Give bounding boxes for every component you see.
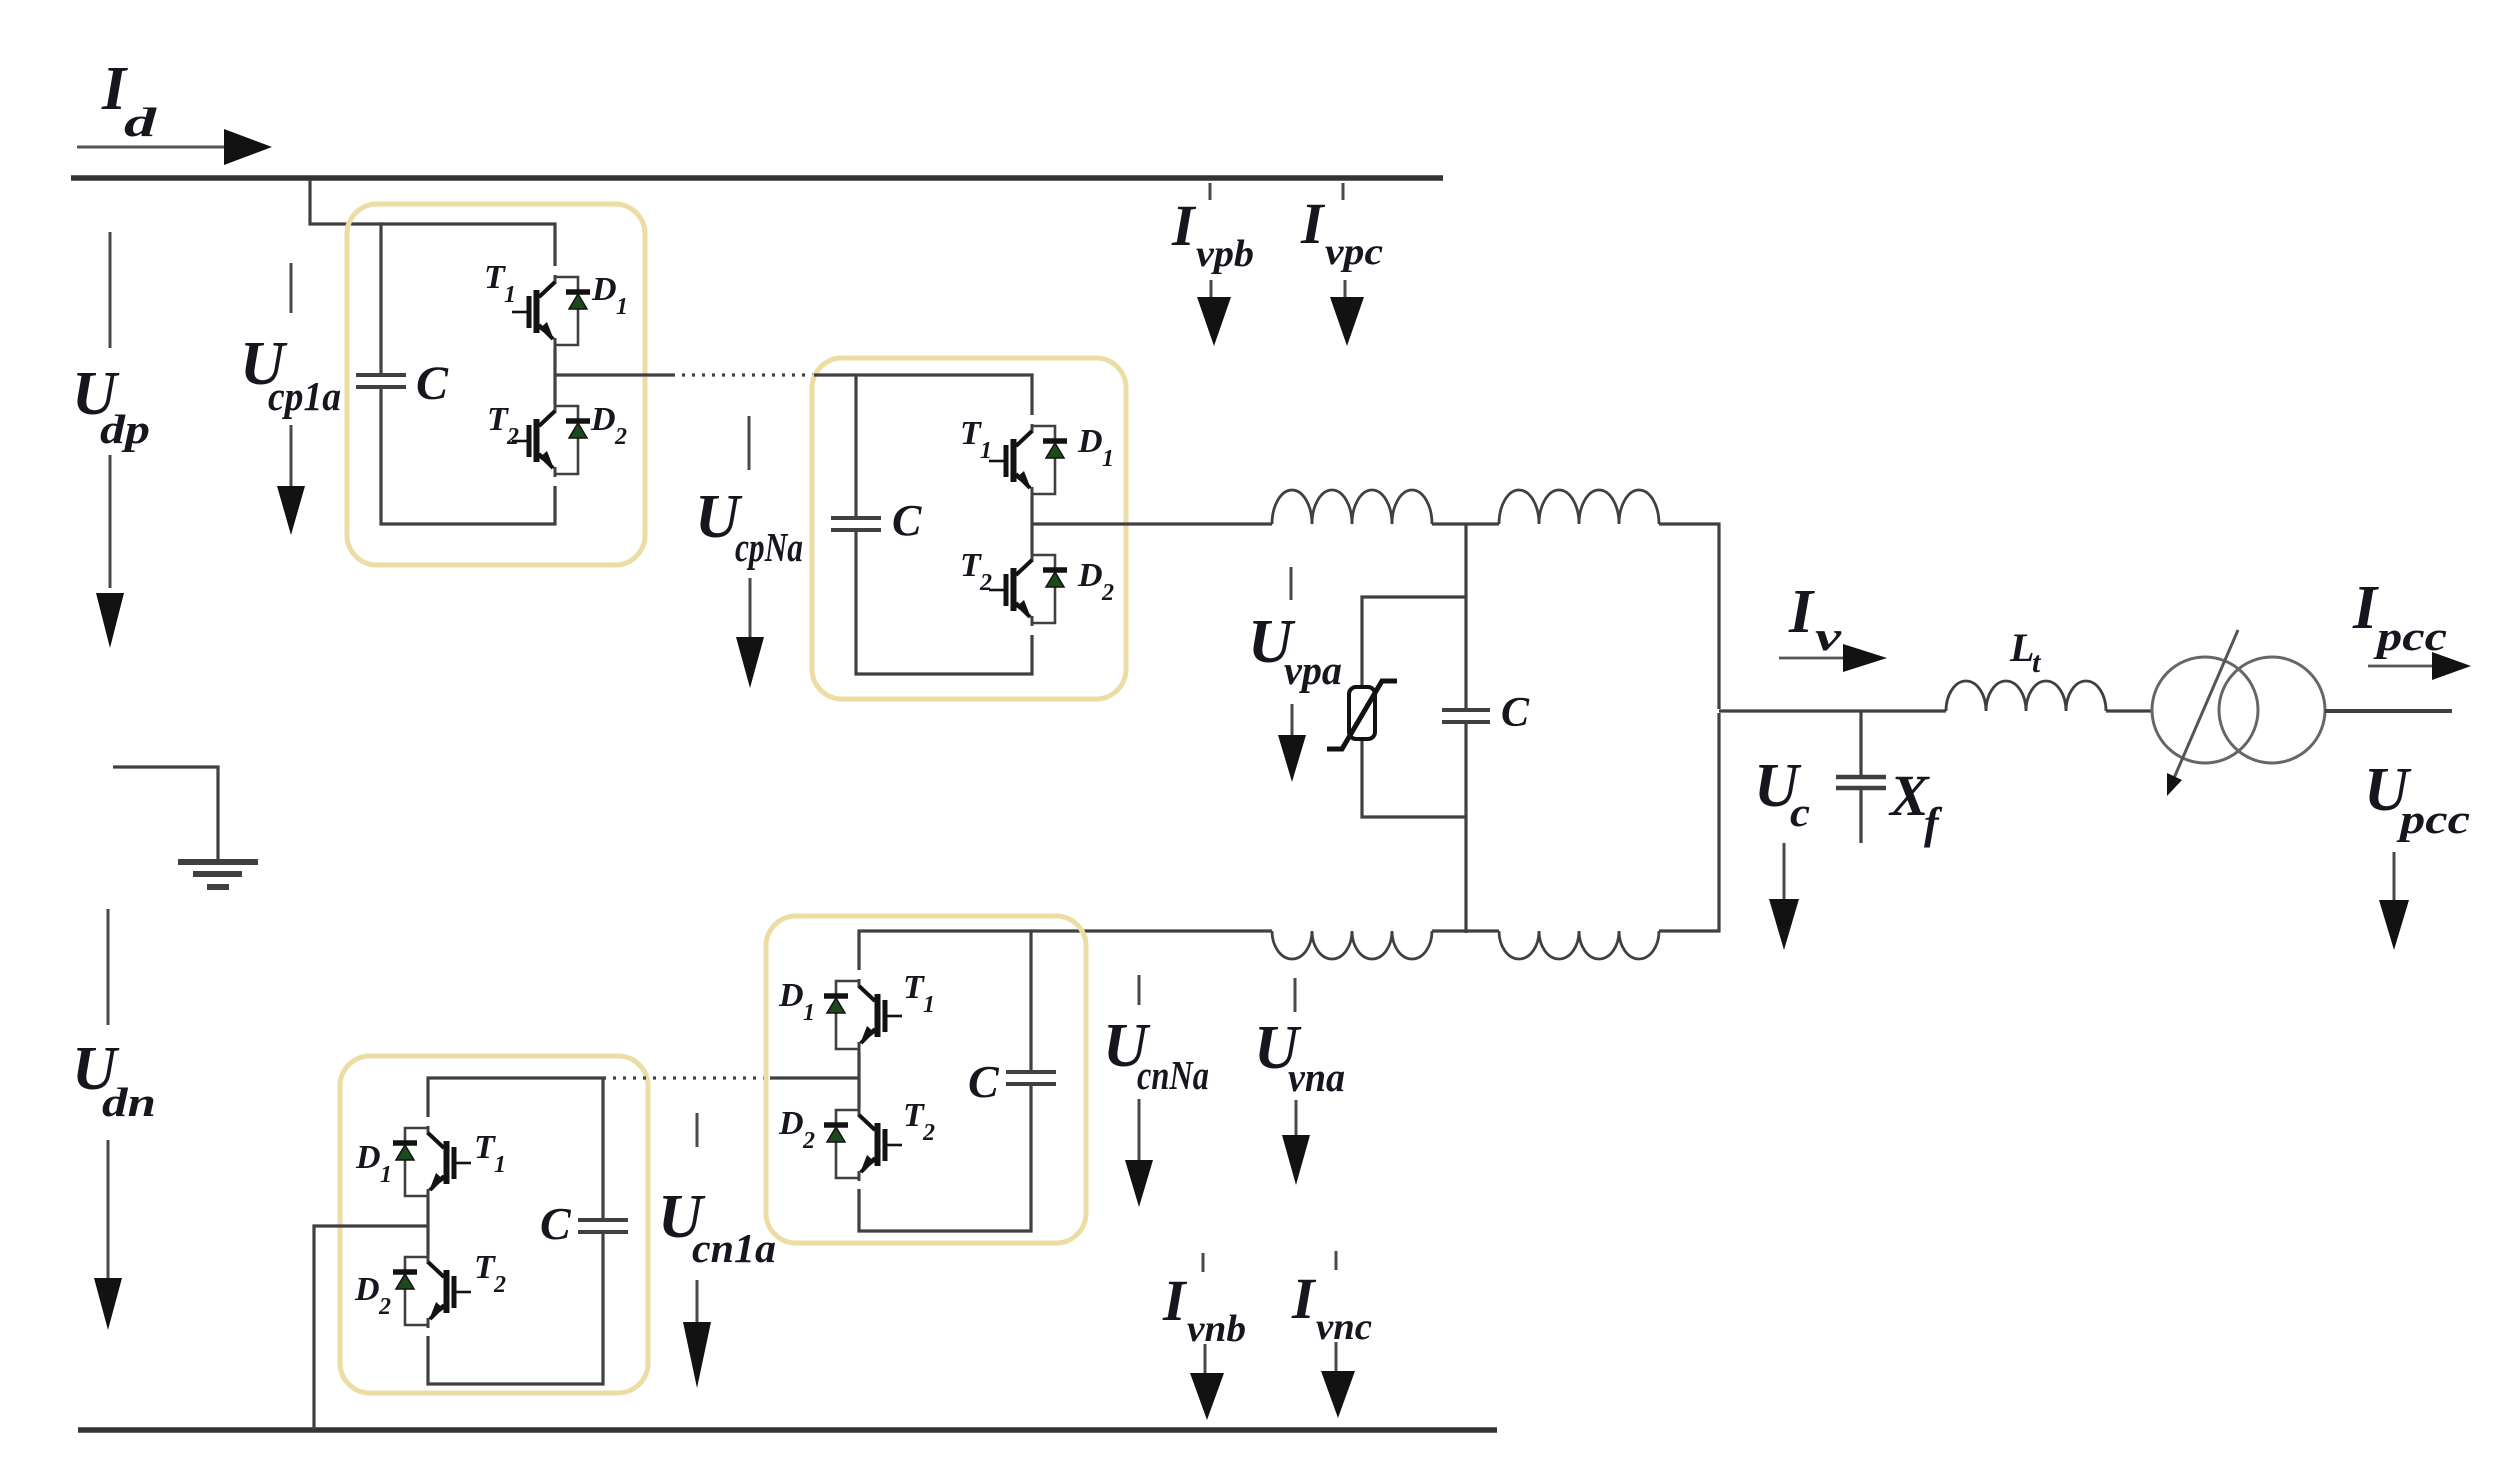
svg-text:C: C [892, 496, 922, 545]
label D1 (SM-nNa) [778, 977, 815, 1026]
arrow Iv (current direction) [1779, 644, 1887, 672]
label D1 (SM-pNa) [1077, 423, 1114, 472]
svg-text:2: 2 [922, 1120, 935, 1146]
label Ivnb [1162, 1268, 1246, 1350]
inductor lower arm reactor 2 [1499, 931, 1659, 959]
transistor T2 with diode D2 (SM-p1a) [512, 404, 590, 477]
label Ucn1a [658, 1183, 776, 1271]
arrow Udn (dashed measurement arrow) [94, 909, 122, 1330]
svg-text:1: 1 [1102, 446, 1114, 472]
label Udn (lower DC voltage) [72, 1035, 156, 1125]
svg-text:1: 1 [980, 438, 992, 464]
label Iv (valve current) [1788, 578, 1842, 659]
svg-text:1: 1 [923, 992, 935, 1018]
label Id (DC-link current) [101, 55, 157, 145]
label C (filter branch) [1501, 690, 1530, 736]
svg-text:D: D [355, 1139, 381, 1176]
transistor T2 with diode D2 (SM-pNa) [989, 553, 1067, 626]
label T2 (SM-n1a) [474, 1249, 506, 1298]
label T1 (SM-pNa) [960, 415, 992, 464]
transformer tap-changer diagonal arrow [2167, 630, 2238, 796]
svg-text:2: 2 [802, 1128, 815, 1154]
transistor T1 with diode D1 (SM-n1a) [393, 1126, 471, 1199]
arrow Ivpc (arm current arrow) [1330, 183, 1364, 346]
svg-text:D: D [1077, 423, 1103, 460]
capacitor C (SM-p1a) [356, 375, 406, 387]
svg-text:pcc: pcc [2373, 613, 2447, 659]
label T2 (SM-nNa) [903, 1097, 935, 1146]
label Uc [1754, 752, 1810, 835]
arrow Ivnb (arm current arrow) [1190, 1253, 1224, 1420]
svg-text:I: I [1300, 191, 1326, 256]
svg-text:cn1a: cn1a [692, 1225, 776, 1271]
svg-text:vpb: vpb [1196, 233, 1254, 275]
arrow Ucp1a (dashed measurement arrow) [277, 263, 305, 535]
submodule SM-p1a highlight box [347, 204, 645, 565]
varistor RV1 (surge arrester) [1327, 681, 1397, 749]
label C (SM-n1a) [540, 1198, 572, 1249]
arrow Udp (dashed measurement arrow) [96, 232, 124, 648]
label D2 (SM-nNa) [778, 1105, 815, 1154]
label Udp (upper DC voltage) [72, 360, 150, 452]
inductor upper arm reactor 1 [1272, 490, 1432, 524]
wire between lower reactors [1432, 929, 1499, 932]
wire top DC bus (positive pole) [71, 175, 1443, 181]
wire SM-n1a cell frame [428, 1078, 603, 1384]
wire Lt to transformer [2106, 709, 2153, 712]
svg-text:T: T [474, 1249, 496, 1286]
label Upcc [2364, 756, 2470, 842]
svg-text:v: v [1815, 613, 1842, 659]
arrow Ivnc (arm current arrow) [1321, 1251, 1355, 1418]
submodule SM-pNa highlight box [812, 358, 1126, 699]
svg-text:dp: dp [100, 406, 150, 452]
svg-text:2: 2 [1101, 580, 1114, 606]
svg-text:vnb: vnb [1187, 1308, 1246, 1350]
wire SM-nNa top to lower arm reactor [1031, 929, 1272, 932]
label D2 (SM-p1a) [590, 401, 627, 450]
capacitor C (filter branch) [1442, 710, 1490, 722]
label T1 (SM-p1a) [484, 259, 516, 308]
wire transformer output [2325, 709, 2452, 713]
transformer T (two winding circles) [2152, 657, 2325, 763]
transistor T1 with diode D1 (SM-p1a) [512, 275, 590, 348]
label T2 (SM-pNa) [960, 547, 992, 596]
svg-text:C: C [540, 1198, 572, 1249]
label Ipcc [2352, 574, 2447, 659]
svg-text:pcc: pcc [2396, 796, 2470, 842]
arrow Uvna (dashed measurement arrow) [1282, 978, 1310, 1185]
label D2 (SM-n1a) [354, 1271, 391, 1320]
arrow Ivpb (arm current arrow) [1197, 183, 1231, 346]
svg-text:dn: dn [102, 1079, 156, 1125]
svg-text:T: T [903, 969, 925, 1006]
svg-text:I: I [1171, 193, 1197, 258]
svg-text:c: c [1790, 789, 1810, 835]
svg-text:2: 2 [979, 570, 992, 596]
label D1 (SM-p1a) [591, 271, 628, 320]
wire phase output node [1719, 709, 1946, 712]
inductor Lt (transformer inductance) [1946, 681, 2106, 711]
wire Xf shunt stub [1859, 711, 1862, 843]
svg-text:D: D [590, 401, 616, 438]
svg-text:I: I [2352, 574, 2379, 642]
svg-text:T: T [487, 401, 509, 438]
svg-text:L: L [2009, 625, 2034, 670]
wire SM-nNa cell frame [770, 931, 1031, 1231]
svg-text:1: 1 [380, 1162, 392, 1188]
svg-text:T: T [484, 259, 506, 296]
capacitor C (SM-pNa) [831, 518, 881, 530]
ground wire stub [113, 767, 218, 861]
label D2 (SM-pNa) [1077, 557, 1114, 606]
label C (SM-p1a) [416, 357, 449, 410]
svg-text:f: f [1924, 799, 1943, 848]
svg-text:1: 1 [803, 1000, 815, 1026]
arrow Ipcc (current direction) [2368, 652, 2471, 680]
svg-text:I: I [1162, 1268, 1188, 1333]
capacitor C (SM-nNa) [1006, 1072, 1056, 1084]
arrow UcpNa (dashed measurement arrow) [736, 416, 764, 688]
submodule SM-nNa highlight box [766, 916, 1086, 1243]
submodule SM-n1a highlight box [340, 1056, 648, 1393]
arrow Upcc (measurement arrow) [2379, 852, 2409, 950]
svg-text:2: 2 [614, 424, 627, 450]
svg-text:vnc: vnc [1316, 1306, 1372, 1348]
svg-text:I: I [1291, 1266, 1317, 1331]
wire upper arm to phase node [1659, 524, 1719, 709]
svg-text:C: C [1501, 690, 1530, 736]
svg-text:d: d [124, 99, 157, 145]
svg-text:D: D [591, 271, 617, 308]
label Xf [1888, 763, 1943, 848]
label Ivnc [1291, 1266, 1372, 1348]
label Ucp1a [240, 330, 341, 419]
svg-text:I: I [1788, 578, 1815, 646]
label T1 (SM-nNa) [903, 969, 935, 1018]
wire center branch vertical [1464, 524, 1467, 933]
capacitor C (SM-n1a) [578, 1220, 628, 1232]
arrow Ucn1a (dashed measurement arrow) [683, 1113, 711, 1388]
svg-text:T: T [474, 1129, 496, 1166]
svg-text:cpNa: cpNa [735, 524, 803, 570]
wire between upper reactors [1432, 522, 1499, 525]
label UcnNa [1103, 1012, 1209, 1098]
svg-text:1: 1 [616, 294, 628, 320]
svg-text:2: 2 [493, 1272, 506, 1298]
wire step from top bus to SM1 [310, 180, 383, 224]
transistor T1 with diode D1 (SM-nNa) [824, 979, 902, 1052]
svg-text:cp1a: cp1a [268, 373, 341, 419]
wire lower arm to phase node [1659, 713, 1719, 931]
svg-text:D: D [778, 977, 804, 1014]
label UcpNa [695, 483, 803, 570]
svg-text:C: C [416, 357, 449, 410]
wire dotted chain link (upper arm) [672, 373, 814, 376]
wire SM-p1a output node [555, 373, 672, 376]
svg-text:t: t [2032, 646, 2042, 679]
arrow Uc (measurement arrow) [1769, 843, 1799, 950]
wire bottom DC bus (negative pole) [78, 1427, 1497, 1433]
arrow UcnNa (dashed measurement arrow) [1125, 975, 1153, 1207]
svg-text:2: 2 [506, 424, 519, 450]
inductor lower arm reactor 1 [1272, 931, 1432, 959]
svg-text:T: T [960, 547, 982, 584]
svg-text:D: D [354, 1271, 380, 1308]
svg-text:cnNa: cnNa [1137, 1052, 1209, 1098]
svg-text:vpa: vpa [1284, 647, 1342, 693]
label C (SM-pNa) [892, 496, 922, 545]
svg-text:1: 1 [504, 282, 516, 308]
label Uvna [1254, 1014, 1345, 1100]
svg-text:T: T [960, 415, 982, 452]
transistor T2 with diode D2 (SM-n1a) [393, 1255, 471, 1328]
svg-text:vna: vna [1288, 1054, 1345, 1100]
svg-text:D: D [778, 1105, 804, 1142]
label Lt [2009, 625, 2042, 679]
arrow Id (current direction) [77, 129, 272, 165]
svg-text:1: 1 [494, 1152, 506, 1178]
transistor T2 with diode D2 (SM-nNa) [824, 1108, 902, 1181]
wire SM-n1a output to bottom bus [314, 1226, 428, 1430]
svg-text:vpc: vpc [1325, 231, 1383, 273]
svg-text:D: D [1077, 557, 1103, 594]
arrow Uvpa (dashed measurement arrow) [1278, 567, 1306, 782]
label T2 (SM-p1a) [487, 401, 519, 450]
label C (SM-nNa) [968, 1056, 1000, 1107]
ground symbol [178, 862, 258, 887]
label Uvpa [1248, 608, 1342, 693]
wire SM-pNa output to upper arm reactor [1032, 522, 1272, 525]
label T1 (SM-n1a) [474, 1129, 506, 1178]
wire varistor parallel connection [1362, 597, 1466, 817]
label D1 (SM-n1a) [355, 1139, 392, 1188]
capacitor Xf (filter reactance) [1836, 777, 1886, 788]
svg-text:C: C [968, 1056, 1000, 1107]
transistor T1 with diode D1 (SM-pNa) [989, 424, 1067, 497]
wire dotted chain link (lower arm) [603, 1076, 770, 1079]
wire SM-p1a cell frame [381, 224, 555, 524]
svg-text:2: 2 [378, 1294, 391, 1320]
inductor upper arm reactor 2 [1499, 490, 1659, 524]
wire SM-pNa cell frame [814, 375, 1032, 674]
svg-text:T: T [903, 1097, 925, 1134]
label Ivpb [1171, 193, 1254, 275]
label Ivpc [1300, 191, 1383, 273]
